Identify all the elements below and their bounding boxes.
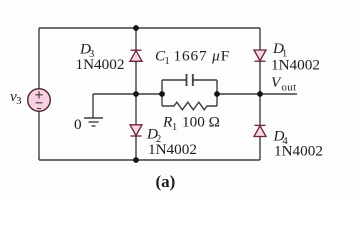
svg-text:1N4002: 1N4002 [274,143,323,160]
svg-text:V: V [271,74,282,91]
svg-text:(a): (a) [156,172,176,191]
svg-text:0: 0 [74,116,82,133]
svg-text:100 Ω: 100 Ω [182,114,220,131]
svg-text:1N4002: 1N4002 [148,141,197,158]
svg-text:1: 1 [172,122,177,133]
svg-text:out: out [282,82,297,94]
svg-text:1: 1 [165,56,170,67]
svg-text:1N4002: 1N4002 [271,56,320,73]
svg-text:3: 3 [16,96,21,107]
svg-text:1N4002: 1N4002 [76,56,125,73]
svg-text:1667 μF: 1667 μF [174,48,231,65]
